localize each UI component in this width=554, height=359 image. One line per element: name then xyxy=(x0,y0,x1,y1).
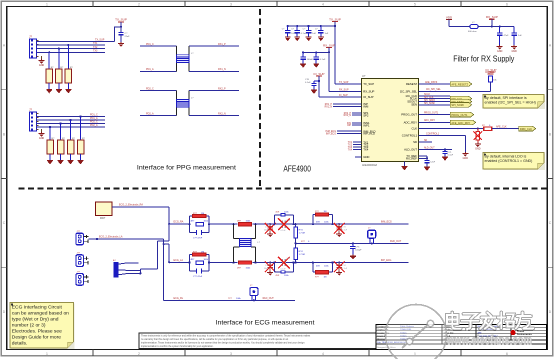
svg-text:5: 5 xyxy=(414,2,416,6)
svg-text:TX_SUP: TX_SUP xyxy=(339,81,349,84)
svg-text:implementation. Texas Instrume: implementation. Texas Instruments and/or… xyxy=(141,341,305,344)
svg-text:RX_SUP: RX_SUP xyxy=(339,88,349,91)
svg-text:1: 1 xyxy=(46,352,48,356)
svg-text:RX_SUP: RX_SUP xyxy=(486,15,498,19)
svg-text:RX2_N: RX2_N xyxy=(344,115,352,117)
svg-text:IO_SUP: IO_SUP xyxy=(363,95,373,99)
svg-text:By default, internal LDO is: By default, internal LDO is xyxy=(485,154,527,158)
svg-text:PD2_C: PD2_C xyxy=(146,87,154,90)
svg-text:1.71M: 1.71M xyxy=(299,233,305,235)
svg-text:INP_ECG: INP_ECG xyxy=(381,259,392,262)
svg-text:www.elecfans.com: www.elecfans.com xyxy=(446,335,532,347)
svg-text:600 ohm: 600 ohm xyxy=(468,31,477,33)
svg-text:SPI_CLK: SPI_CLK xyxy=(424,97,434,99)
svg-text:I2C_SPI_SEL: I2C_SPI_SEL xyxy=(426,88,441,91)
svg-text:VDD: VDD xyxy=(446,16,453,20)
svg-text:CLK: CLK xyxy=(412,127,418,131)
svg-text:45R: 45R xyxy=(275,275,279,277)
svg-text:1: 1 xyxy=(46,2,48,6)
svg-text:AFE_RSTZ: AFE_RSTZ xyxy=(425,81,438,84)
svg-text:0.1uF: 0.1uF xyxy=(281,230,287,232)
svg-text:TX4: TX4 xyxy=(363,148,369,152)
svg-text:1uF: 1uF xyxy=(312,33,316,35)
svg-text:IO_SUP: IO_SUP xyxy=(339,94,348,97)
svg-text:GND: GND xyxy=(39,64,45,67)
svg-text:0.1uF: 0.1uF xyxy=(320,59,326,61)
svg-text:1M: 1M xyxy=(324,276,327,278)
svg-text:TX3: TX3 xyxy=(93,50,98,53)
svg-text:0.1uF: 0.1uF xyxy=(342,229,348,231)
svg-text:0.1uF: 0.1uF xyxy=(305,82,311,84)
svg-text:2.2uF: 2.2uF xyxy=(430,162,436,164)
svg-text:IO_SUP: IO_SUP xyxy=(485,68,496,72)
svg-text:0.1uF: 0.1uF xyxy=(448,155,454,157)
svg-text:number (2 or 3): number (2 or 3) xyxy=(12,323,46,329)
svg-text:implementation to confirm the: implementation to confirm the system fun… xyxy=(141,345,214,348)
svg-text:2: 2 xyxy=(138,352,140,356)
svg-text:ECG_RL: ECG_RL xyxy=(174,297,184,300)
svg-text:INM_ECG: INM_ECG xyxy=(381,221,392,224)
svg-text:GND: GND xyxy=(475,148,481,151)
svg-text:AFE4900: AFE4900 xyxy=(283,164,311,173)
svg-text:Interface for PPG measurement: Interface for PPG measurement xyxy=(137,164,236,171)
svg-text:GND: GND xyxy=(363,155,369,159)
svg-text:These instruments is only for: These instruments is only for reference … xyxy=(141,335,311,338)
svg-text:TX_SUP: TX_SUP xyxy=(95,38,105,41)
svg-text:ECG_2_Electrode_RA: ECG_2_Electrode_RA xyxy=(119,204,143,207)
svg-text:no warranty that this design w: no warranty that this design will meet t… xyxy=(141,338,289,341)
svg-text:AFE_RESETZ: AFE_RESETZ xyxy=(451,82,468,86)
svg-text:PD1_A: PD1_A xyxy=(146,68,154,71)
svg-text:ADC_RDY: ADC_RDY xyxy=(424,119,435,122)
svg-text:PROG_OUT1: PROG_OUT1 xyxy=(451,113,468,117)
svg-text:INM: INM xyxy=(363,105,369,109)
svg-text:6: 6 xyxy=(506,352,508,356)
svg-text:4: 4 xyxy=(322,2,324,6)
svg-text:PD2_A: PD2_A xyxy=(90,124,98,127)
svg-text:AFE4900RGZ: AFE4900RGZ xyxy=(362,164,378,167)
svg-text:2: 2 xyxy=(138,2,140,6)
svg-text:47uF: 47uF xyxy=(504,35,510,37)
svg-text:100nF: 100nF xyxy=(307,59,314,61)
svg-text:ALD_OUT: ALD_OUT xyxy=(424,146,435,149)
svg-text:INP1: INP1 xyxy=(363,123,370,127)
svg-text:AFE_ADC_RDY: AFE_ADC_RDY xyxy=(451,121,470,125)
svg-text:RLD_OUT: RLD_OUT xyxy=(390,240,402,243)
svg-text:RX1_N: RX1_N xyxy=(218,68,226,71)
svg-text:ECG_RA: ECG_RA xyxy=(174,221,184,224)
svg-text:56pF: 56pF xyxy=(264,268,269,270)
svg-text:can be arranged based on: can be arranged based on xyxy=(12,311,69,317)
svg-text:SP2: SP2 xyxy=(363,113,369,117)
svg-text:TX2: TX2 xyxy=(93,46,98,49)
svg-text:PD1_C: PD1_C xyxy=(146,43,154,46)
svg-text:PD2_A: PD2_A xyxy=(146,113,154,116)
svg-text:GND: GND xyxy=(39,137,45,140)
svg-text:GND: GND xyxy=(463,157,469,160)
svg-text:SEN: SEN xyxy=(411,102,417,106)
svg-text:ADC_RDY: ADC_RDY xyxy=(404,121,418,125)
svg-text:RX2_N: RX2_N xyxy=(218,113,226,116)
svg-text:RESETZ: RESETZ xyxy=(406,82,417,86)
svg-text:ALD_OUT: ALD_OUT xyxy=(404,148,417,152)
svg-text:TX_SUP: TX_SUP xyxy=(363,82,374,86)
svg-text:SCLK: SCLK xyxy=(424,94,430,96)
svg-text:56pF: 56pF xyxy=(264,229,269,231)
svg-text:RX2_P: RX2_P xyxy=(218,87,226,90)
svg-text:45R: 45R xyxy=(316,265,320,267)
svg-text:SD: SD xyxy=(413,140,417,144)
svg-text:RX_SUP: RX_SUP xyxy=(323,43,335,47)
svg-text:3: 3 xyxy=(230,2,232,6)
svg-text:INP_RLD: INP_RLD xyxy=(363,132,375,136)
svg-text:1M: 1M xyxy=(201,251,204,253)
svg-text:1M: 1M xyxy=(324,211,327,213)
svg-text:RX_REF: RX_REF xyxy=(406,157,417,161)
svg-text:AFE_CLK: AFE_CLK xyxy=(496,125,507,128)
svg-text:22uF: 22uF xyxy=(125,36,131,38)
svg-text:C?? 47nF: C?? 47nF xyxy=(193,276,203,278)
svg-text:1uF: 1uF xyxy=(325,33,329,35)
svg-text:SPI_SOMI: SPI_SOMI xyxy=(424,103,435,105)
svg-text:4: 4 xyxy=(322,352,324,356)
svg-text:45R: 45R xyxy=(316,222,320,224)
svg-text:RLD_OUT: RLD_OUT xyxy=(263,297,275,300)
svg-text:CONTROL1: CONTROL1 xyxy=(402,134,418,138)
svg-text:Filter for RX Supply: Filter for RX Supply xyxy=(453,53,515,63)
svg-text:enabled (I2C_SPI_SEL = HIGH): enabled (I2C_SPI_SEL = HIGH) xyxy=(485,101,536,105)
svg-text:TX1: TX1 xyxy=(93,42,98,45)
svg-text:SPI_SIMO: SPI_SIMO xyxy=(424,100,435,102)
svg-text:INP: INP xyxy=(347,125,351,127)
svg-text:RX1_P: RX1_P xyxy=(218,43,226,46)
svg-text:100pF: 100pF xyxy=(355,250,362,252)
svg-text:U?: U? xyxy=(362,74,366,78)
svg-text:TX_SUP: TX_SUP xyxy=(329,17,341,21)
svg-text:PROG_OUT1: PROG_OUT1 xyxy=(424,112,439,114)
svg-text:SPI_SOMI: SPI_SOMI xyxy=(451,103,464,107)
svg-text:DRD_CLK: DRD_CLK xyxy=(520,127,532,131)
svg-text:3: 3 xyxy=(230,352,232,356)
svg-text:INP_ECG: INP_ECG xyxy=(326,134,336,136)
svg-text:TX4: TX4 xyxy=(348,149,353,151)
svg-text:J?: J? xyxy=(29,108,32,112)
svg-text:enabled (CONTROL1 = GND): enabled (CONTROL1 = GND) xyxy=(485,159,533,163)
svg-text:CONTROL1: CONTROL1 xyxy=(426,132,440,135)
svg-text:45R: 45R xyxy=(275,212,279,214)
svg-text:ECG_LA: ECG_LA xyxy=(174,259,184,262)
svg-text:ECG Interfacing Circuit: ECG Interfacing Circuit xyxy=(12,305,63,311)
svg-text:By default, SPI interface is: By default, SPI interface is xyxy=(485,96,527,100)
svg-text:1uF: 1uF xyxy=(518,35,522,37)
svg-text:Interface for ECG measurement: Interface for ECG measurement xyxy=(216,319,315,326)
svg-text:type (Wet or Dry) and: type (Wet or Dry) and xyxy=(12,317,59,323)
svg-text:1.71M: 1.71M xyxy=(299,254,305,256)
svg-text:IO_SUP: IO_SUP xyxy=(313,72,324,76)
svg-text:RX_SUP: RX_SUP xyxy=(363,90,374,94)
svg-text:0.1uF: 0.1uF xyxy=(342,268,348,270)
svg-text:FID?: FID? xyxy=(100,217,106,220)
svg-text:0.1uF: 0.1uF xyxy=(281,268,287,270)
svg-text:1M: 1M xyxy=(201,213,204,215)
svg-text:ECG_2_Electrode_LA: ECG_2_Electrode_LA xyxy=(99,236,123,239)
svg-text:J?: J? xyxy=(29,35,32,39)
svg-text:6: 6 xyxy=(506,2,508,6)
svg-text:PROG_OUT: PROG_OUT xyxy=(401,113,417,117)
svg-text:SD: SD xyxy=(424,140,428,142)
svg-text:details.: details. xyxy=(12,341,27,347)
svg-text:RX1_N: RX1_N xyxy=(325,107,333,109)
svg-text:Electrodes. Please see: Electrodes. Please see xyxy=(12,329,62,335)
svg-text:TX_SUP: TX_SUP xyxy=(115,18,127,22)
svg-text:C?? 47nF: C?? 47nF xyxy=(193,237,203,239)
svg-text:Design Guide for more: Design Guide for more xyxy=(12,335,61,341)
